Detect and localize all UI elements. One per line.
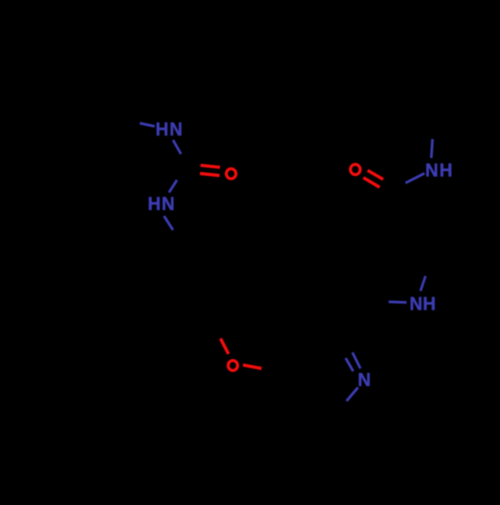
svg-text:H: H xyxy=(148,194,161,214)
svg-text:H: H xyxy=(439,160,452,180)
wire: urea C=O double bond lower line xyxy=(200,174,220,176)
node N3: pyridine N label xyxy=(358,370,371,390)
svg-text:N: N xyxy=(358,370,371,390)
wire: pyridine C=N double bond inner line xyxy=(346,358,354,371)
svg-text:H: H xyxy=(423,294,436,314)
node O3: amide carbonyl O label xyxy=(350,164,360,174)
node N5: amide NH label (H glyph) xyxy=(439,160,452,180)
wire: urea C=O double bond upper line xyxy=(201,165,221,167)
wire: bond pyridine N to C down-left xyxy=(347,388,359,402)
svg-text:N: N xyxy=(162,194,175,214)
wire: bond aryl C to ether O xyxy=(221,339,229,355)
node N4: pyrrole NH label (H glyph) xyxy=(423,294,436,314)
svg-text:H: H xyxy=(156,120,169,140)
svg-text:N: N xyxy=(170,120,183,140)
node N2: urea HN label (H glyph) xyxy=(148,194,161,214)
wire: bond ether O to pyridine C xyxy=(243,365,262,369)
svg-text:N: N xyxy=(425,160,438,180)
wire: bond pyrrole C2 to N4 horizontal xyxy=(389,300,407,303)
wire: amide C=O double bond upper line xyxy=(368,170,384,179)
node N5: amide NH label (N glyph) xyxy=(425,160,438,180)
node O2: ether O label xyxy=(228,360,237,370)
wire: bond N5 to methyl C up xyxy=(431,139,432,158)
svg-text:N: N xyxy=(410,294,423,314)
wire: amide C=O double bond lower line xyxy=(363,178,379,188)
wire: bond pyrrole N4 to C5 up xyxy=(421,276,426,291)
wire: bond urea C to N2 xyxy=(169,180,177,192)
wire: bond N2 to aryl ring C xyxy=(164,216,173,230)
wire: bond amide C to N5 xyxy=(406,173,425,183)
wire: pyridine C=N double bond outer line xyxy=(352,352,360,368)
wire: bond N1 to urea carbonyl C xyxy=(173,140,181,154)
node N1: urea HN label (N glyph) xyxy=(170,120,183,140)
node N2: urea HN label (N glyph) xyxy=(162,194,175,214)
node N1: urea HN label (H glyph) xyxy=(156,120,169,140)
wire: bond stub from methyl C to N1 of urea xyxy=(140,123,155,126)
node O1: urea carbonyl O label xyxy=(226,169,236,179)
node N4: pyrrole NH label (N glyph) xyxy=(410,294,423,314)
